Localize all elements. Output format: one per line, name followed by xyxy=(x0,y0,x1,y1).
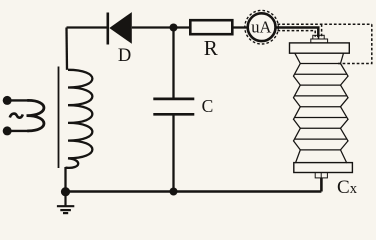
shed 4 underside slants xyxy=(294,141,301,150)
guard shield dashed line (lower) xyxy=(278,30,316,32)
shed 2 underside slants xyxy=(294,98,301,107)
transformer core xyxy=(58,67,60,169)
bushing bottom stem tick xyxy=(320,173,322,178)
svg-text:R: R xyxy=(204,36,218,60)
shed 1 underside slants xyxy=(294,76,301,85)
AC source terminal node (top) xyxy=(3,96,29,105)
svg-text:D: D xyxy=(118,46,131,66)
node junction dot (transformer/ground) xyxy=(61,187,70,196)
guard shield dashed line (upper) xyxy=(278,23,372,25)
capacitor C top plate xyxy=(153,98,194,101)
shed 3 rim slants xyxy=(294,107,301,120)
wire (secondary top to top rail corner) xyxy=(65,28,68,70)
guard shield dashed loop right side xyxy=(338,24,372,63)
transformer primary winding T1 xyxy=(27,100,44,130)
wire (top rail to diode) xyxy=(67,26,108,28)
wire (diode to resistor) xyxy=(132,26,191,28)
shed 2 rim line xyxy=(295,95,346,97)
diode D cathode bar xyxy=(107,13,110,45)
node junction dot (capacitor bottom) xyxy=(170,188,178,196)
shed core line 3 xyxy=(300,106,340,108)
test object Cx top terminal small caps xyxy=(311,35,328,43)
wire (junction down to capacitor) xyxy=(172,28,174,99)
neck below flange xyxy=(295,53,301,63)
bushing shed stack xyxy=(294,53,349,162)
shed core line 4 xyxy=(300,127,340,129)
node junction dot (capacitor tap) xyxy=(170,24,178,32)
shed 4 rim line xyxy=(295,138,346,140)
bushing bottom flange xyxy=(294,163,353,173)
shed core line 2 xyxy=(300,84,340,86)
svg-text:Cx: Cx xyxy=(337,177,358,198)
wire (meter to high-voltage terminal bend) xyxy=(276,28,319,38)
shed 1 rim line xyxy=(295,73,346,75)
bushing top flange xyxy=(290,43,350,53)
base slants to bottom flange xyxy=(296,150,301,163)
shed 4 rim slants xyxy=(294,128,301,141)
resistor R xyxy=(190,20,232,34)
bottom ground bus wire xyxy=(66,190,322,193)
wire (Cx bottom to bus) xyxy=(320,178,323,192)
shed 2 rim slants xyxy=(294,85,301,98)
shed 1 rim slants xyxy=(294,64,301,77)
diode D triangle xyxy=(109,12,132,44)
ground symbol xyxy=(57,192,74,214)
shed 3 rim line xyxy=(295,117,346,119)
shed core line 1 xyxy=(300,63,340,65)
guard shield dashed vertical (right of lead) xyxy=(321,24,323,37)
AC source terminal node (bottom) xyxy=(3,126,29,135)
bushing bottom stem xyxy=(315,173,327,178)
shed core line 5 xyxy=(300,149,340,151)
svg-text:C: C xyxy=(202,96,214,116)
wire (capacitor to bottom bus) xyxy=(172,114,174,191)
capacitor C bottom plate xyxy=(153,113,194,116)
AC tilde symbol xyxy=(10,114,23,118)
svg-text:uA: uA xyxy=(251,18,271,37)
wire (resistor to meter) xyxy=(232,26,248,28)
shed 3 underside slants xyxy=(294,119,301,128)
guard shield dashed vertical (left of lead) xyxy=(314,31,316,37)
wire (secondary bottom to ground node) xyxy=(64,167,66,192)
microammeter uA circle xyxy=(248,13,276,41)
transformer secondary winding xyxy=(66,70,93,168)
microammeter guard dashed circle xyxy=(245,10,279,44)
